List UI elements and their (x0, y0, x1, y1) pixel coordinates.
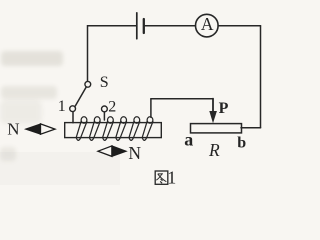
svg-text:N: N (128, 143, 141, 163)
svg-text:P: P (219, 100, 229, 117)
svg-text:N: N (7, 120, 19, 139)
wire coil right vertical (150, 99, 152, 118)
compass needle bottom: white half (98, 146, 112, 157)
winding loop 1 (76, 117, 87, 141)
compass needle bottom: black half (112, 146, 126, 157)
paper noise left lower (0, 100, 42, 124)
contact 1 circle (70, 106, 76, 112)
battery short plate (143, 19, 145, 33)
svg-text:b: b (237, 135, 246, 152)
switch blade (75, 87, 86, 106)
wire right corner to rheostat b end (241, 127, 261, 129)
solenoid winding loops (76, 117, 153, 141)
switch pivot circle (85, 81, 91, 87)
svg-text:1: 1 (58, 98, 66, 115)
wire battery to ammeter (145, 25, 195, 27)
wire right vertical (260, 26, 262, 128)
caption: character tu (drawn) (155, 171, 168, 184)
rheostat slider arrowhead (209, 111, 217, 123)
compass needle left: black half (26, 124, 41, 134)
paper noise left mid (1, 86, 57, 99)
paper noise bottom left (0, 147, 16, 161)
solenoid core bar (65, 123, 162, 138)
paper noise left upper (1, 51, 63, 66)
wire contact1 down (72, 112, 74, 123)
winding loop 6 (142, 117, 153, 141)
winding loop 2 (89, 117, 100, 141)
wire coil to slider horizontal (151, 98, 213, 100)
svg-text:2: 2 (108, 98, 116, 115)
svg-text:S: S (100, 74, 109, 91)
wire ammeter to right corner (218, 25, 260, 27)
contact 2 circle (102, 106, 108, 112)
svg-text:A: A (201, 14, 214, 34)
svg-text:R: R (208, 140, 220, 160)
svg-text:1: 1 (167, 168, 176, 187)
rheostat slider stem (212, 99, 214, 113)
svg-text:a: a (184, 129, 193, 149)
wire top-left vertical (88, 26, 136, 82)
compass needle left: white half (41, 124, 56, 134)
wire contact2 down (103, 112, 105, 120)
paper noise bottom band (0, 152, 120, 185)
winding loop 4 (116, 117, 127, 141)
rheostat R body (191, 124, 242, 133)
winding loop 3 (103, 117, 114, 141)
battery long plate (136, 13, 138, 39)
winding loop 5 (129, 117, 140, 141)
ammeter A circle (196, 14, 219, 37)
